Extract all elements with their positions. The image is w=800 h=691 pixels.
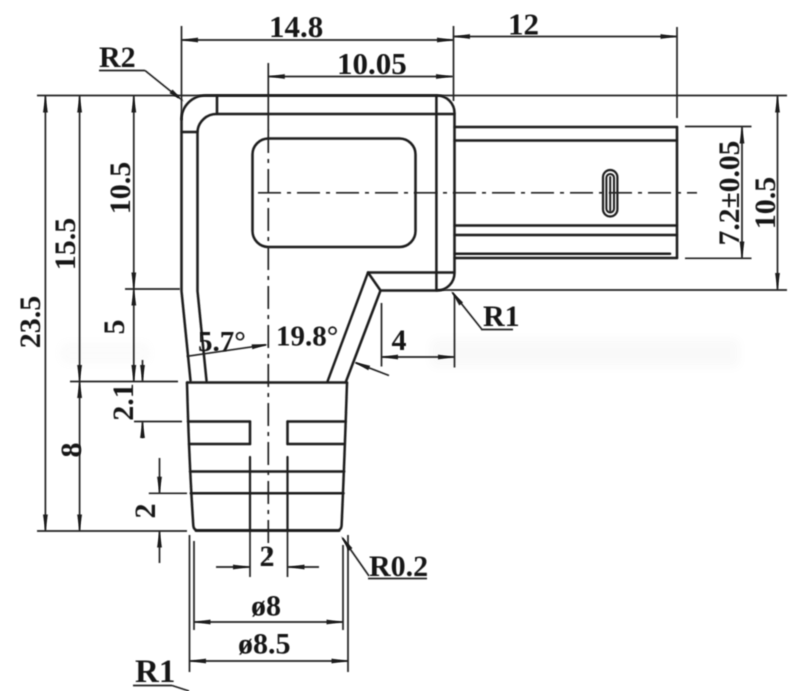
svg-text:15.5: 15.5 xyxy=(49,218,82,271)
svg-text:2: 2 xyxy=(129,504,162,519)
svg-text:R1: R1 xyxy=(135,654,175,690)
svg-text:5.7°: 5.7° xyxy=(198,326,246,358)
svg-text:23.5: 23.5 xyxy=(14,296,47,349)
svg-text:R0.2: R0.2 xyxy=(369,550,428,583)
svg-text:5: 5 xyxy=(98,320,131,335)
svg-text:ø8.5: ø8.5 xyxy=(238,628,291,661)
svg-text:14.8: 14.8 xyxy=(269,9,323,44)
svg-text:8: 8 xyxy=(55,443,88,458)
svg-text:4: 4 xyxy=(392,324,407,357)
svg-text:10.05: 10.05 xyxy=(337,46,407,81)
svg-text:R1: R1 xyxy=(483,300,520,333)
svg-text:R2: R2 xyxy=(99,41,136,74)
svg-text:10.5: 10.5 xyxy=(104,162,137,215)
svg-text:7.2±0.05: 7.2±0.05 xyxy=(714,141,746,246)
svg-text:19.8°: 19.8° xyxy=(276,321,338,353)
svg-text:12: 12 xyxy=(508,7,539,42)
svg-text:2: 2 xyxy=(260,540,275,573)
svg-text:10.5: 10.5 xyxy=(749,177,782,230)
svg-text:ø8: ø8 xyxy=(251,590,281,623)
svg-text:2.1: 2.1 xyxy=(107,383,140,421)
